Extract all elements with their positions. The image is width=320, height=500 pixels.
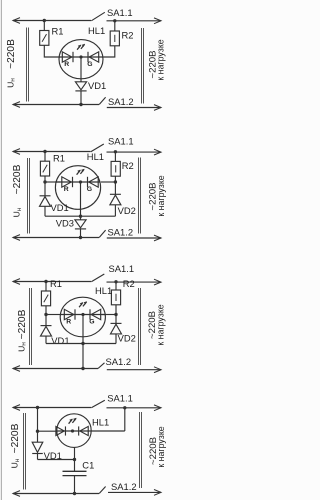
svg-text:~220В: ~220В: [10, 423, 21, 453]
svg-text:HL1: HL1: [92, 417, 109, 428]
svg-text:SA1.1: SA1.1: [109, 263, 135, 274]
svg-text:~220В: ~220В: [12, 164, 23, 194]
svg-text:G: G: [87, 61, 92, 68]
svg-text:к нагрузке: к нагрузке: [155, 39, 165, 80]
svg-text:~220В: ~220В: [6, 39, 17, 69]
svg-text:HL1: HL1: [87, 151, 104, 162]
svg-text:VD1: VD1: [51, 335, 69, 346]
svg-text:HL1: HL1: [88, 25, 105, 36]
svg-text:~220В: ~220В: [17, 309, 28, 339]
svg-text:R: R: [64, 61, 69, 68]
svg-text:VD2: VD2: [118, 205, 136, 216]
svg-text:HL1: HL1: [95, 285, 112, 296]
svg-text:C1: C1: [82, 460, 94, 471]
svg-text:SA1.1: SA1.1: [107, 7, 133, 18]
svg-text:SA1.2: SA1.2: [111, 481, 137, 492]
svg-text:G: G: [87, 186, 92, 193]
svg-text:VD1: VD1: [51, 202, 69, 213]
svg-text:R: R: [66, 319, 71, 326]
svg-text:R1: R1: [52, 26, 64, 37]
svg-text:к нагрузке: к нагрузке: [155, 304, 165, 345]
svg-text:SA1.2: SA1.2: [106, 356, 132, 367]
svg-text:SA1.2: SA1.2: [108, 226, 134, 237]
svg-text:VD2: VD2: [118, 333, 136, 344]
svg-text:G: G: [89, 319, 94, 326]
svg-text:R2: R2: [123, 278, 135, 289]
svg-text:R2: R2: [122, 30, 134, 41]
svg-text:SA1.1: SA1.1: [107, 393, 133, 404]
svg-text:VD1: VD1: [88, 80, 106, 91]
svg-text:SA1.2: SA1.2: [108, 96, 134, 107]
svg-text:VD3: VD3: [56, 217, 74, 228]
svg-text:R2: R2: [122, 160, 134, 171]
svg-text:R: R: [64, 186, 69, 193]
svg-text:SA1.1: SA1.1: [108, 136, 134, 147]
svg-text:к нагрузке: к нагрузке: [156, 175, 166, 216]
svg-text:R1: R1: [50, 278, 62, 289]
svg-text:к нагрузке: к нагрузке: [156, 426, 166, 467]
svg-text:R1: R1: [53, 153, 65, 164]
